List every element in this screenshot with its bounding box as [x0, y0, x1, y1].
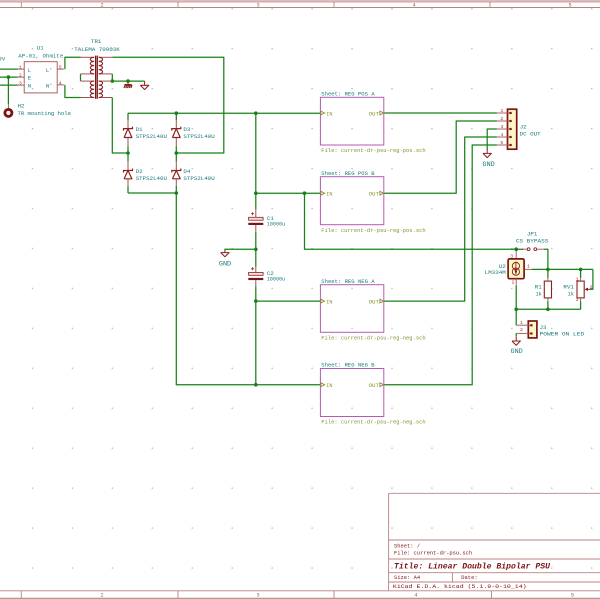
wire bridge AC1 column D1-D2 [127, 113, 129, 120]
wire negative raw rail at bridge [128, 192, 176, 194]
wire U2 pin 2 down [515, 285, 517, 309]
connector U1 AP-01 mains inlet [18, 45, 64, 93]
diode D2 STPS2L40U [124, 161, 168, 186]
wire mid node to GND [225, 249, 256, 250]
wire TR1 secondary top to bridge AC2 [112, 57, 224, 153]
svg-text:GND: GND [511, 348, 523, 355]
wire TR1 secondary bottom to bridge AC1 [112, 98, 128, 154]
svg-text:1: 1 [500, 108, 503, 114]
svg-text:POWER ON LED: POWER ON LED [540, 330, 585, 337]
svg-text:File: current-dr-psu-reg-pos.s: File: current-dr-psu-reg-pos.sch [321, 227, 425, 234]
svg-text:Date:: Date: [461, 575, 477, 581]
svg-text:IN: IN [326, 298, 333, 305]
svg-text:STPS2L40U: STPS2L40U [136, 133, 168, 140]
svg-text:4: 4 [412, 3, 415, 9]
svg-text:OUT: OUT [369, 110, 380, 117]
wire positive raw rail [128, 112, 320, 114]
transformer TR1 TALEMA 70063K [74, 38, 120, 99]
svg-text:1: 1 [19, 65, 22, 71]
svg-text:5: 5 [568, 3, 571, 9]
junction output row at R1 [546, 268, 550, 272]
wire JP1 to U2 output node [544, 249, 548, 269]
svg-text:OUT: OUT [369, 298, 380, 305]
svg-text:0V: 0V [0, 56, 6, 63]
svg-text:Sheet: REG POS A: Sheet: REG POS A [321, 91, 375, 98]
capacitor C2 10000u [248, 267, 285, 287]
svg-text:5: 5 [571, 593, 574, 599]
wire output row to RV1 wiper [590, 269, 593, 289]
hierarchical sheet REG POS A [320, 91, 425, 155]
wire REG POS A OUT to J2 pin 1 [384, 112, 497, 114]
svg-text:10000u: 10000u [267, 276, 285, 283]
svg-text:2: 2 [520, 327, 523, 333]
wire mains E from border to U1 pin 2 [0, 76, 18, 78]
svg-text:N: N [28, 83, 31, 90]
svg-text:RV1: RV1 [563, 283, 574, 290]
svg-text:L': L' [46, 67, 53, 74]
svg-text:4: 4 [414, 593, 417, 599]
svg-text:2: 2 [512, 279, 515, 285]
svg-text:File: current-dr-psu-reg-pos.s: File: current-dr-psu-reg-pos.sch [321, 147, 425, 154]
svg-text:2: 2 [100, 593, 103, 599]
svg-text:H2: H2 [18, 102, 25, 109]
diode D3 STPS2L40U [172, 120, 215, 146]
junction AC2 at D3/D4 [175, 151, 179, 155]
wire -raw down and across to REG NEG B IN [176, 193, 320, 385]
svg-text:4: 4 [59, 80, 62, 86]
wire current source bottom rail [516, 308, 580, 310]
svg-text:R1: R1 [535, 283, 542, 290]
wire TR1 center tap [111, 74, 113, 81]
wire J2 pin 3 to GND [487, 129, 497, 150]
junction bottom rail at U2/J3 [514, 308, 518, 312]
connector J3 POWER ON LED [516, 320, 585, 338]
svg-text:IN: IN [326, 382, 333, 389]
junction center tap at TR1 [111, 79, 115, 83]
capacitor C1 10000u [248, 209, 285, 232]
svg-text:1k: 1k [568, 290, 575, 297]
svg-text:1: 1 [576, 276, 579, 282]
svg-text:KiCad E.D.A. kicad (5.1.9-0-1: KiCad E.D.A. kicad (5.1.9-0-10_14) [393, 583, 527, 590]
ground GND at J3 pin 2 [511, 336, 523, 355]
svg-text:2: 2 [100, 3, 103, 9]
junction +raw at CS branch [303, 191, 307, 195]
svg-text:File: current-dr-psu.sch: File: current-dr-psu.sch [394, 551, 472, 557]
svg-text:Title: Linear Double Bipolar P: Title: Linear Double Bipolar PSU [394, 561, 551, 571]
junction +raw at C1 branch [254, 111, 258, 115]
wire mains N from border to U1 pin 3 [0, 84, 18, 86]
wire mains L from border to U1 pin 1 [0, 68, 18, 70]
junction center tap at chassis ground [126, 79, 130, 83]
mounting hole H2 [5, 102, 72, 117]
junction current source supply at U2 pin 3 [514, 247, 518, 251]
svg-text:U1: U1 [37, 45, 44, 52]
junction -raw at C2 branch bottom [254, 383, 258, 387]
svg-text:GND: GND [483, 161, 495, 168]
hierarchical sheet REG NEG A [320, 278, 425, 342]
junction -raw A at C2 bottom [254, 299, 258, 303]
svg-text:3: 3 [256, 3, 259, 9]
svg-text:STPS2L40U: STPS2L40U [136, 175, 168, 182]
svg-text:STPS2L40U: STPS2L40U [183, 133, 215, 140]
junction -raw at D4 [175, 191, 179, 195]
wire J3 pin 2 to GND [515, 333, 517, 336]
current source U2 LM334M [485, 251, 532, 286]
svg-text:3: 3 [500, 124, 503, 130]
svg-text:J2: J2 [520, 123, 527, 130]
wire R1 column [547, 269, 549, 278]
svg-text:TR mounting hole: TR mounting hole [18, 110, 72, 117]
svg-text:TR1: TR1 [91, 38, 102, 45]
wire RV1 column [580, 269, 582, 278]
svg-text:1k: 1k [536, 290, 543, 297]
wire U1 pin 4 to TR1 primary bottom [65, 85, 81, 98]
jumper JP1 CS BYPASS [516, 231, 549, 251]
junction +raw at C1 column crossing [254, 191, 258, 195]
svg-text:DC OUT: DC OUT [520, 131, 542, 138]
svg-text:3: 3 [576, 297, 579, 303]
wire +raw branch to current source row [305, 193, 524, 249]
svg-text:4: 4 [500, 132, 503, 138]
svg-text:5: 5 [500, 140, 503, 146]
ground GND at C1/C2 mid node [219, 251, 231, 268]
svg-text:OUT: OUT [369, 191, 380, 198]
ground GND at TR1 center tap [140, 81, 149, 89]
wire bottom rail to J3 pin 1 [515, 309, 517, 325]
wire C1 column [255, 113, 257, 209]
svg-text:N': N' [46, 83, 53, 90]
svg-text:Sheet: REG NEG B: Sheet: REG NEG B [321, 362, 375, 369]
junction +raw at D3 [175, 111, 179, 115]
svg-text:Size: A4: Size: A4 [394, 575, 420, 581]
svg-text:LM334M: LM334M [485, 269, 507, 276]
svg-text:OUT: OUT [369, 382, 380, 389]
diode D4 STPS2L40U [172, 161, 215, 186]
svg-text:File: current-dr-psu-reg-neg.s: File: current-dr-psu-reg-neg.sch [321, 335, 425, 342]
wire earth net down to H2 [7, 77, 9, 104]
svg-text:AP-01, Ohmite: AP-01, Ohmite [18, 52, 64, 59]
ground GND at J2 pin 3 [483, 149, 495, 168]
resistor R1 1k [535, 278, 552, 301]
svg-text:5: 5 [59, 65, 62, 71]
svg-text:3: 3 [19, 81, 22, 87]
wire REG NEG B OUT to J2 pin 5 [384, 145, 497, 385]
wire REG POS B OUT to J2 pin 2 [384, 121, 497, 193]
wire REG NEG A OUT to J2 pin 4 [384, 137, 497, 301]
svg-text:CS BYPASS: CS BYPASS [516, 237, 549, 244]
svg-text:TALEMA 70063K: TALEMA 70063K [74, 46, 120, 53]
wire +raw to REG POS B IN [256, 192, 321, 194]
svg-text:Sheet: REG POS B: Sheet: REG POS B [321, 170, 375, 177]
svg-text:2: 2 [590, 285, 593, 291]
svg-text:File: current-dr-psu-reg-neg.s: File: current-dr-psu-reg-neg.sch [321, 419, 425, 426]
connector J2 DC OUT [497, 108, 541, 149]
wire TR1 primary series link [80, 74, 82, 81]
svg-text:L: L [28, 67, 31, 74]
svg-text:GND: GND [219, 260, 231, 267]
hierarchical sheet REG NEG B [320, 362, 425, 426]
svg-text:1: 1 [527, 264, 530, 270]
svg-text:IN: IN [326, 110, 333, 117]
junction bottom rail at R1 [546, 308, 550, 312]
junction earth net at U1 pin 2 [7, 75, 11, 79]
svg-text:3: 3 [510, 253, 513, 259]
potentiometer RV1 1k [563, 276, 592, 303]
wire C2 column [255, 287, 257, 385]
svg-text:1: 1 [520, 320, 523, 326]
svg-text:10000u: 10000u [267, 221, 285, 228]
diode D1 STPS2L40U [124, 120, 168, 146]
junction mid node C1/C2 [254, 248, 258, 252]
svg-text:Sheet: /: Sheet: / [394, 543, 420, 549]
svg-text:2: 2 [19, 73, 22, 79]
wire bridge AC2 column D3-D4 [175, 113, 177, 120]
svg-text:Sheet: REG NEG A: Sheet: REG NEG A [321, 278, 375, 285]
wire C2 bottom to REG NEG A IN [256, 300, 321, 302]
hierarchical sheet REG POS B [320, 170, 425, 234]
svg-text:STPS2L40U: STPS2L40U [183, 175, 215, 182]
svg-text:2: 2 [500, 116, 503, 122]
wire U2 pin 1 output row [531, 268, 593, 270]
svg-text:IN: IN [326, 191, 333, 198]
junction AC1 at D1/D2 [126, 151, 130, 155]
svg-text:3: 3 [256, 593, 259, 599]
chassis ground GNDPWR at center tap [124, 81, 132, 88]
wire U1 pin 5 to TR1 primary top [65, 57, 81, 69]
junction output row at RV1 [579, 268, 583, 272]
title block [389, 493, 600, 591]
